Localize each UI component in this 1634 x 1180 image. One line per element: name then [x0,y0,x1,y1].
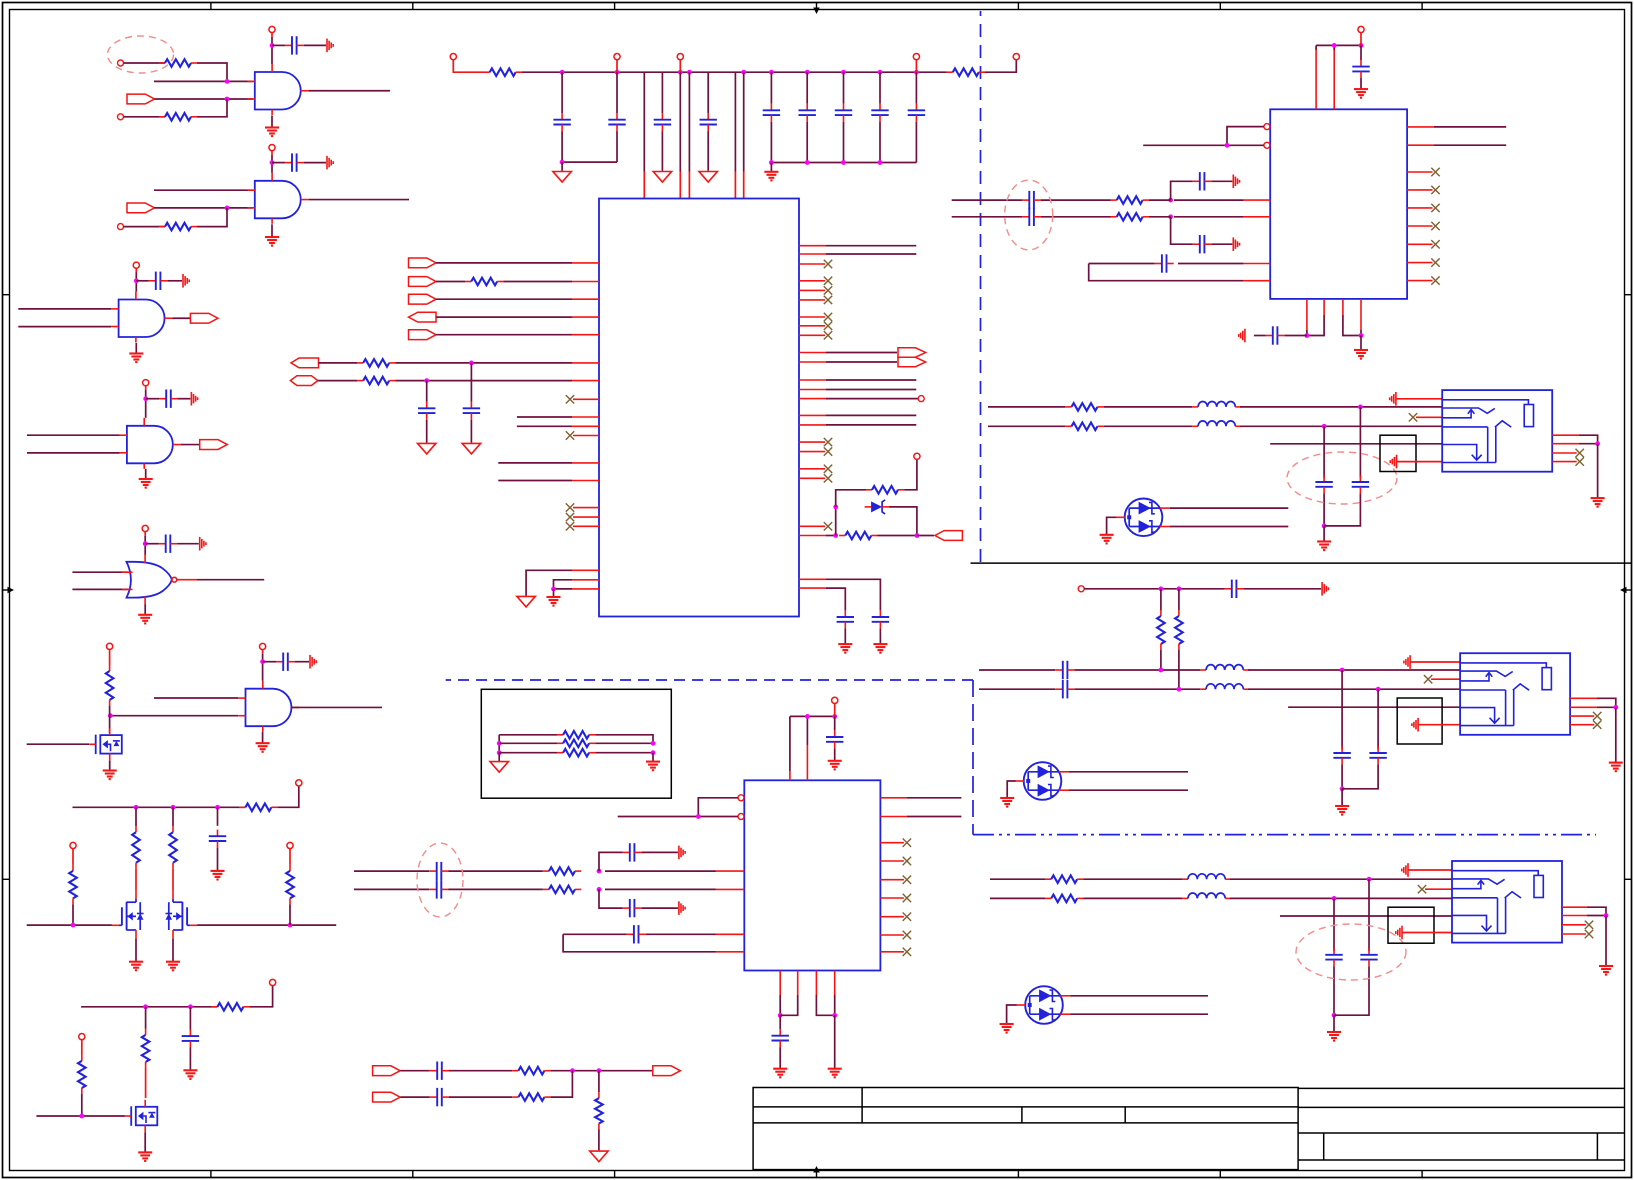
wire rail to C11 [661,72,663,113]
wire G2 to ground [271,224,273,236]
title block left [753,1088,1298,1170]
VCC terminal R4 [107,643,113,649]
wire L6 to J3 [1230,897,1452,899]
resistor R4 [106,665,114,706]
wire R32 to ground [598,1130,600,1151]
resistor R20 [1111,196,1149,204]
terminal T3 [118,224,124,230]
wire G5 output [197,579,264,581]
wire rail to U1 pin [743,72,745,171]
wire Q3 source to ground [172,939,174,962]
wire C17 to ground [426,420,428,443]
capacitor C37 [826,730,843,748]
port flag IN1 [127,94,155,104]
wire J2 sleeve gnd [1410,661,1460,663]
capacitor C3 [149,272,168,290]
wire node down [1171,217,1193,244]
wire rail to U1 pin [679,72,681,171]
capacitor C43 [772,1029,789,1047]
AND gate G3 [111,292,172,343]
inverted pin U2 [1264,124,1270,130]
resistor RN1C [557,749,595,757]
pin U2 right [1407,144,1434,146]
no-connect [1431,222,1439,230]
wire C41 to ground [642,907,678,909]
junction [805,70,810,75]
pin U2 right nc y263 [1407,262,1432,264]
ground U1 pin [517,596,535,607]
port flag A4 [409,312,437,322]
wire J2 detect gnd [1418,724,1460,726]
pin U1 right y352 [799,352,826,354]
junction [260,659,265,664]
wire to ground [553,589,555,597]
capacitor C21 [1352,60,1369,78]
wire C10 bottom [616,131,618,162]
wire A3 to U1 [436,298,572,300]
ground U3 [828,1069,842,1078]
junction [687,70,692,75]
resistor R8 [69,865,77,905]
wire VCC stem [1360,33,1362,46]
wire gate G4 input B [27,452,120,454]
pin U1 left y299 [572,298,599,300]
wire to ground [834,1015,836,1068]
wire L3 to J2 [1248,669,1460,671]
zener diode DZ1 [865,500,890,514]
pin U3 right [880,797,907,799]
capacitor C24 [1022,191,1041,209]
ground C17 [418,443,436,454]
junction [225,206,230,211]
wire to flag B2 [917,535,934,537]
wire C40 to R29 [449,888,543,890]
wire to ground [561,162,563,171]
pin U1 right nc y469 [799,468,825,470]
NOR gate G5 [122,554,197,605]
resistor R9 [286,865,294,905]
pin U1 right y246 [799,245,826,247]
wire U1 to ground [526,570,572,595]
no-connect [903,894,911,902]
wire C16 bottom [879,122,881,163]
wire to R24 [1160,589,1162,610]
wire C21 to ground [1360,78,1362,89]
ground C33 C34 [1335,806,1349,815]
wire R2 to node B [197,99,227,117]
ESD diode D3 [1016,986,1070,1024]
wire A1 to U1 [436,262,572,264]
wire J3 sleeve gnd [1408,869,1452,871]
pin J1 right 2 [1552,443,1579,445]
wire to C21 [1360,45,1362,60]
wire U3 pin loop [698,798,738,817]
junction [143,396,148,401]
capacitor C29 [1352,475,1369,493]
wire R27 to L6 [1083,897,1182,899]
capacitor C44 [430,1062,449,1080]
wire U2 top 2 [1333,45,1335,50]
ground G6 [256,743,270,752]
pin U1 right nc y290 [799,289,825,291]
no-connect [1431,204,1439,212]
junction [79,1114,84,1119]
wire R10 to VCC [250,986,273,1007]
wire VCC stem 2 [145,390,147,399]
wire R9 to node [289,904,291,925]
capacitor C30 [1225,580,1244,598]
wire from C25 [1041,216,1111,218]
wire to U3 [605,888,716,890]
pin U3 bottom 3 [815,971,817,996]
wire U3 out [907,816,961,818]
pin U1 top 2 [679,172,681,199]
port flag A6 [291,358,319,368]
wire to C36 [1368,879,1370,951]
wire D3 out2 [1071,1013,1209,1015]
wire junction to C4 [146,398,159,400]
resistor R11 [142,1029,150,1068]
wire D1 out2 [1170,526,1288,528]
pin U1 left y589 [572,588,599,590]
no-connect [824,286,832,294]
detect box J3 [1388,907,1434,943]
audio jack J2 [1460,653,1570,735]
ground C11 [653,172,671,183]
pin U2 bottom 3 [1342,299,1344,315]
ground G1 bypass [327,39,333,53]
wire C27 to ground [1254,335,1266,337]
pin J2 right nc [1570,724,1594,726]
no-connect [566,395,574,403]
pin U1 right y536 [799,535,826,537]
pin J3 right 2 [1562,915,1587,917]
wire node up [1171,181,1193,200]
no-connect [1593,712,1601,720]
inductor L6 [1182,893,1231,898]
pin U3 bottom 1 [779,971,781,996]
wire RN1 row2 left [499,742,557,744]
VCC terminal G5 [142,525,148,531]
wire U2 pin loop [1227,127,1264,146]
wire C20 to ground [844,628,846,643]
wire R26 to L5 [1083,878,1182,880]
junction [1340,668,1345,673]
wire gate G2 input B [155,207,253,209]
wire J2 out down [1597,698,1616,707]
wire to C33 [1341,670,1343,749]
junction [1305,333,1310,338]
audio jack J1 [1442,390,1552,472]
wire to C43 [779,1015,781,1029]
capacitor C41 [623,899,642,917]
junction [1159,586,1164,591]
pin U2 right nc y244 [1407,243,1432,245]
wire gate G3 input A [18,308,111,310]
ESD diode D1 [1116,499,1170,537]
junction [833,533,838,538]
wire left segment [952,216,1022,218]
IC U1 [599,199,799,617]
VCC terminal VB1 [296,780,302,786]
wire J3 detect [1280,915,1452,917]
junction [143,541,148,546]
wire VCC stem 2 [271,155,273,163]
wire VCC stem [271,151,273,155]
wire to ground [1323,526,1325,541]
junction [1595,441,1600,446]
junction [270,43,275,48]
highlight ellipse E3 [1287,452,1397,504]
wire R6 to Q2 [135,869,137,891]
wire Q4 gate [36,1115,125,1117]
wire VCC stem [145,386,147,390]
wire C35 down [1333,966,1335,1015]
wire gate G6 input A [154,697,238,699]
ESD diode D2 [1015,762,1069,800]
pin U1 left y335 [572,334,599,336]
ground J1 sleeve [1390,392,1396,406]
pin U1 right nc y326 [799,325,825,327]
wire RN1 left rail [498,735,500,753]
resistor R18 [866,486,904,494]
highlight ellipse E5 [1296,924,1406,980]
wire to C28 [1323,426,1325,478]
capacitor C16 [871,104,888,122]
transistor Q3 [166,891,198,939]
wire C37 to ground [834,748,836,760]
pin U2 bottom 4 [1360,299,1362,330]
wire gate G1 input B [155,98,253,100]
wire IN-R [988,425,1065,427]
wire RN1 row1 right [595,735,653,744]
pin U3 bottom 2 [797,971,799,996]
terminal T2 [118,114,124,120]
wire VCC stem [135,268,137,272]
wire A5 to U1 [436,334,572,336]
wire C31 to L3 [1075,669,1201,671]
capacitor C8 [182,1030,199,1048]
capacitor C27 [1266,326,1285,344]
ground U2 [1354,350,1368,359]
wire rail to C10 [616,72,618,113]
wire C9 bottom [562,131,617,162]
junction [1322,424,1327,429]
ground G5 [138,615,152,624]
wire L1 to J1 [1240,406,1442,408]
wire junction to C3 [136,280,148,282]
wire P3 stem [616,60,618,73]
wire C18 to ground [470,420,472,443]
wire D1 out1 [1170,507,1288,509]
wire VB2 to R11 [145,1007,147,1029]
pin U1 right y254 [799,253,826,255]
wire to R25 [1178,589,1180,610]
ground G4 [139,479,153,488]
wire C8 to ground [189,1048,191,1070]
wire R24 down [1160,650,1162,670]
capacitor C18 [463,402,480,420]
junction [215,805,220,810]
wire VCC stem to G1 [271,45,273,64]
capacitor C33 [1333,746,1350,764]
ground C9 C10 [553,172,571,183]
wire VCC stem 2 [144,536,146,544]
pin U3 right nc y952 [880,951,904,953]
wire [1306,330,1308,336]
wire IN-L [988,406,1065,408]
junction [651,741,656,746]
ground C27 [1239,329,1245,343]
pin U1 right nc y300 [799,299,825,301]
resistor R24 [1157,610,1165,650]
wire C2 to ground [304,162,326,164]
wire U2 bottom 2 [1307,315,1324,336]
port flag B1 (double) [898,348,926,367]
wire R25 down [1178,650,1180,689]
VCC terminal U3 [832,697,838,703]
wire Q1 source to ground [109,761,111,770]
resistor R26 [1045,875,1083,883]
pin U1 right y362 [799,361,826,363]
junction [1367,877,1372,882]
junction [134,278,139,283]
pin U2 right [1407,126,1434,128]
capacitor C23 [1193,235,1212,253]
section divider dashed vertical 2 [972,680,974,835]
wire C28 down [1323,493,1325,526]
wire junction to C1 [272,44,285,46]
junction [551,587,556,592]
no-connect [1431,258,1439,266]
pin U1 right nc y317 [799,316,825,318]
wire C19 to ground [879,628,881,643]
pin U2 right nc y226 [1407,225,1432,227]
ground G1 [265,128,279,137]
pin U1 top 4 [734,172,736,199]
ground D3 [1000,1024,1014,1033]
ground G6 bypass [310,655,316,669]
no-connect [824,522,832,530]
VCC terminal G1 [269,26,275,32]
pin U1 right y390 [799,389,826,391]
wire U1 in [517,425,572,427]
ground C7 [211,871,225,880]
wire DZ1 to node [889,507,917,536]
capacitor C42 [627,925,646,943]
wire in HP-R [354,888,429,890]
junction [143,1004,148,1009]
capacitor C11 [654,113,671,131]
pin U2 left [1243,263,1270,265]
port flag IN2 [127,203,155,213]
resistor RN1B [557,740,595,748]
resistor R30 [512,1067,550,1075]
wire C11 to ground [661,131,663,171]
wire U2 out [1434,126,1506,128]
wire U1 out [826,389,916,391]
terminal [918,396,924,402]
wire gate G3 input B [18,326,111,328]
pin U1 right y415 [799,414,826,416]
wire C23 to ground [1212,243,1233,245]
wire D2 out2 [1069,789,1188,791]
wire C6 to ground [295,661,309,663]
ground C19 [873,644,887,653]
ground J2 [1609,763,1623,772]
wire U2 top rail [1316,44,1361,46]
pin U3 left [716,870,744,872]
wire VB1 to C7 [217,807,219,826]
no-connect [824,313,832,321]
wire C32 to L4 [1075,688,1201,690]
wire C33 down [1341,764,1343,788]
wire J3 out down [1587,907,1606,915]
wire U1 in [498,462,572,464]
VCC terminal P5 [913,54,919,60]
wire R18 to VCC [904,459,917,489]
junction [1359,333,1364,338]
no-connect [824,474,832,482]
capacitor C10 [608,113,625,131]
pin U1 left y263 [572,262,599,264]
junction [1332,896,1337,901]
resistor network box RN1 [481,689,671,798]
wire to U2 [1174,216,1243,218]
junction [1340,786,1345,791]
junction [915,533,920,538]
VCC terminal P1 [450,54,456,60]
VCC terminal P2 [1013,54,1019,60]
IC U2 [1270,109,1407,299]
no-connect [903,839,911,847]
wire to U2 [1174,199,1243,201]
no-connect [824,322,832,330]
ground J3 [1599,966,1613,975]
capacitor C40 [430,880,449,898]
AND gate G2 [248,173,309,224]
ground C30 [1322,582,1328,596]
wire VCC stem to G2 [271,163,273,173]
junction [497,750,502,755]
pin J2 right nc [1570,715,1594,717]
junction [1332,43,1337,48]
junction [914,70,919,75]
wire C34 down [1342,764,1378,788]
no-connect [1585,930,1593,938]
wire [1597,706,1616,708]
wire VCC stem to G6 [262,662,264,681]
wire G6 to ground [262,732,264,743]
pin U1 left nc y436 [573,435,599,437]
pin U1 right y380 [799,379,826,381]
wire U3 bottom 3 [816,995,834,1015]
wire A7 to R17 [318,380,357,382]
ground C20 [838,644,852,653]
wire C43 to ground [779,1047,781,1068]
wire U1 out [826,424,916,426]
resistor R28 [543,867,581,875]
port flag IN-B [373,1092,401,1102]
wire node Z vertical [835,507,837,536]
pin U3 right nc y935 [880,934,904,936]
capacitor C22 [1193,172,1212,190]
wire U1 out [826,253,916,255]
junction [134,805,139,810]
capacitor C28 [1315,475,1332,493]
ground Q2 [129,962,143,971]
pin U3 right nc y843 [880,842,904,844]
